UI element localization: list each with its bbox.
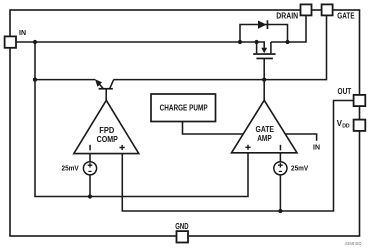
wire charge pump output to gate amp side and IN stub [183,122,317,141]
wire transistor base lead [105,89,107,101]
V2 minus mark [279,171,282,172]
svg-text:COMP: COMP [97,135,119,144]
node FPD source junction [88,194,92,198]
wire mosfet body arrow link [257,42,265,49]
svg-text:AMP: AMP [257,134,272,143]
svg-text:25mV: 25mV [62,163,79,172]
wire IN riser down and bottom rail to gate-amp plus [35,42,248,197]
mosfet M1 body arrowhead [261,48,267,53]
node mosfet source junction [255,40,259,44]
V2 plus mark [278,163,283,168]
wire OUT net: FPD plus input, bottom rail, riser to OUT pin [122,101,353,212]
svg-text:DRAIN: DRAIN [276,12,298,21]
transistor Q1 emitter diagonal [99,84,103,89]
pin OUT box [354,95,366,106]
node diode cathode junction [285,40,289,44]
wire mosfet source stub [256,42,258,53]
diode D1 cathode bar [267,20,269,29]
pin IN box [5,36,16,47]
U2 minus input mark [280,145,282,151]
transistor Q1 emitter arrowhead [95,79,102,87]
svg-text:FPD: FPD [99,126,114,135]
voltage source V1 25mV circle [83,162,96,175]
charge pump block [151,94,216,122]
svg-text:DD: DD [342,124,350,130]
svg-text:IN: IN [19,28,26,37]
wire transistor collector to GATE pin [113,16,326,80]
pin VDD box [354,120,366,131]
svg-text:OUT: OUT [338,87,352,96]
node gate junction [262,78,266,82]
U2 plus input mark [245,145,250,150]
node A : IN pin junction [33,40,37,44]
pin DRAIN box [301,4,312,15]
wire gate-amp minus input through 25mV source [279,153,281,211]
svg-text:4358 BD: 4358 BD [345,241,362,247]
diode D1 body [258,21,267,29]
wire diode branch [240,25,288,43]
wire IN pin to node A [16,41,35,43]
wire FPD minus input through 25mV source [89,154,91,197]
node emitter junction [33,78,37,82]
mosfet M1 gate bar [256,58,273,60]
wire mosfet drain to DRAIN pin [271,16,306,43]
pin GATE box [322,4,333,15]
pin GND box [177,231,189,242]
mosfet M1 channel bar [253,53,275,55]
U1 minus input mark [89,145,91,151]
node gate-amp source junction [278,209,282,213]
wire mosfet gate to gate-amp output [263,59,265,101]
transistor Q1 collector diagonal [110,80,114,89]
transistor Q1 base bar [99,88,113,90]
wire IN top rail to MOSFET source [35,41,257,43]
svg-text:GATE: GATE [337,12,355,21]
voltage source V2 25mV circle [274,162,287,175]
node diode anode junction [238,40,242,44]
svg-text:GND: GND [175,222,188,231]
svg-text:IN: IN [313,143,320,152]
svg-text:CHARGE PUMP: CHARGE PUMP [160,104,209,113]
op-amp U2 GATE AMP triangle [232,100,298,153]
svg-text:25mV: 25mV [291,164,308,173]
svg-text:GATE: GATE [256,125,275,134]
wire mosfet drain stub [270,42,272,53]
op-amp U1 FPD COMP triangle [74,100,139,153]
U1 plus input mark [120,145,125,150]
wire transistor emitter [35,79,95,81]
V1 minus mark [88,171,91,172]
V1 plus mark [88,163,93,168]
